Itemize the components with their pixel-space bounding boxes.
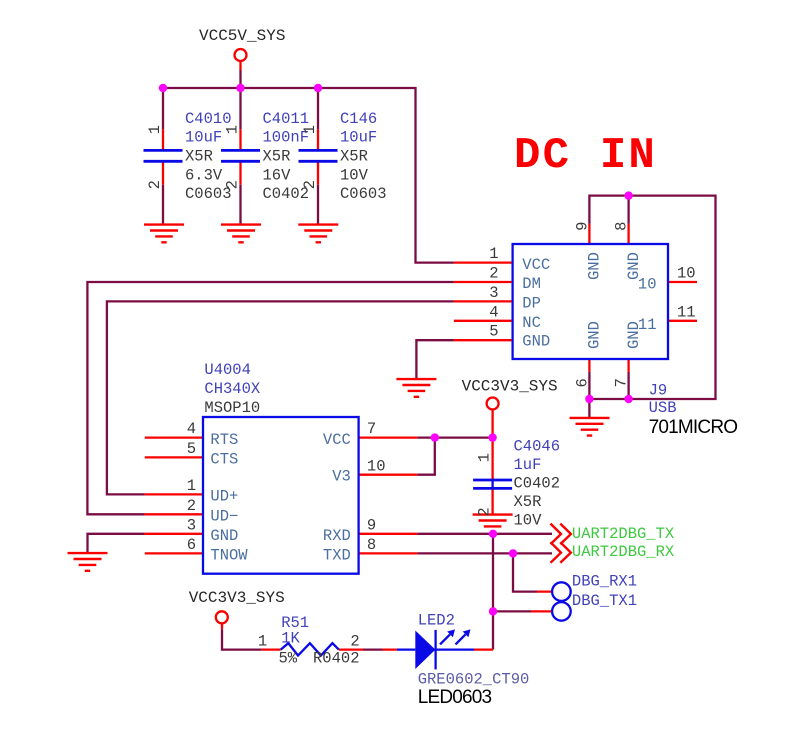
- svg-text:DP: DP: [522, 295, 541, 313]
- svg-text:6.3V: 6.3V: [185, 166, 223, 184]
- svg-text:R0402: R0402: [313, 650, 360, 668]
- svg-text:2: 2: [146, 180, 164, 189]
- svg-text:DC IN: DC IN: [514, 131, 657, 181]
- svg-text:GND: GND: [522, 332, 550, 350]
- svg-text:6: 6: [573, 378, 591, 387]
- svg-text:5: 5: [489, 323, 498, 341]
- svg-text:VCC3V3_SYS: VCC3V3_SYS: [462, 378, 558, 396]
- svg-text:GND: GND: [586, 321, 604, 349]
- svg-text:U4004: U4004: [204, 361, 251, 379]
- svg-text:UART2DBG_RX: UART2DBG_RX: [572, 543, 675, 561]
- svg-text:5: 5: [187, 440, 196, 458]
- svg-text:GND: GND: [586, 252, 604, 280]
- svg-text:DM: DM: [522, 275, 541, 293]
- svg-text:10uF: 10uF: [340, 129, 377, 147]
- svg-text:3: 3: [187, 516, 196, 534]
- svg-text:GND: GND: [210, 527, 238, 545]
- svg-text:2: 2: [301, 180, 319, 189]
- svg-text:2: 2: [476, 507, 494, 516]
- svg-text:1uF: 1uF: [514, 456, 542, 474]
- svg-text:2: 2: [489, 265, 498, 283]
- svg-text:TXD: TXD: [323, 547, 351, 565]
- svg-text:9: 9: [573, 222, 591, 231]
- svg-text:C4046: C4046: [514, 438, 561, 456]
- svg-text:VCC: VCC: [323, 431, 351, 449]
- svg-text:2: 2: [224, 180, 242, 189]
- svg-text:5%: 5%: [279, 650, 298, 668]
- svg-text:1: 1: [258, 632, 267, 650]
- svg-text:701MICRO: 701MICRO: [649, 417, 738, 438]
- svg-text:LED0603: LED0603: [418, 687, 492, 708]
- svg-text:DBG_RX1: DBG_RX1: [572, 573, 637, 591]
- svg-text:GND: GND: [625, 321, 643, 349]
- svg-text:1: 1: [301, 125, 319, 134]
- svg-text:V3: V3: [332, 468, 351, 486]
- svg-text:RTS: RTS: [210, 431, 238, 449]
- svg-text:11: 11: [677, 303, 696, 321]
- svg-text:C146: C146: [340, 110, 377, 128]
- svg-text:LED2: LED2: [418, 612, 455, 630]
- svg-text:9: 9: [367, 516, 376, 534]
- svg-text:10V: 10V: [514, 512, 543, 530]
- svg-text:2: 2: [187, 497, 196, 515]
- svg-text:2: 2: [350, 632, 359, 650]
- svg-text:X5R: X5R: [263, 148, 291, 166]
- svg-text:X5R: X5R: [185, 148, 213, 166]
- svg-text:1K: 1K: [281, 629, 300, 647]
- svg-text:X5R: X5R: [340, 148, 368, 166]
- svg-text:CTS: CTS: [210, 451, 238, 469]
- svg-text:UD+: UD+: [210, 488, 238, 506]
- svg-text:7: 7: [613, 378, 631, 387]
- svg-text:1: 1: [489, 245, 498, 263]
- svg-text:8: 8: [367, 536, 376, 554]
- svg-text:CH340X: CH340X: [204, 380, 261, 398]
- svg-text:7: 7: [367, 420, 376, 438]
- svg-text:6: 6: [187, 536, 196, 554]
- svg-text:UART2DBG_TX: UART2DBG_TX: [572, 525, 675, 543]
- svg-text:4: 4: [187, 420, 196, 438]
- svg-text:J9: J9: [649, 381, 668, 399]
- svg-text:USB: USB: [649, 399, 677, 417]
- svg-text:4: 4: [489, 303, 498, 321]
- svg-text:1: 1: [187, 477, 196, 495]
- svg-text:16V: 16V: [263, 166, 292, 184]
- svg-text:RXD: RXD: [323, 527, 351, 545]
- svg-text:1: 1: [476, 453, 494, 462]
- svg-text:VCC3V3_SYS: VCC3V3_SYS: [189, 589, 285, 607]
- svg-text:1: 1: [224, 125, 242, 134]
- svg-text:C0402: C0402: [514, 475, 561, 493]
- svg-text:VCC5V_SYS: VCC5V_SYS: [199, 27, 285, 45]
- svg-text:GND: GND: [625, 252, 643, 280]
- svg-text:10V: 10V: [340, 166, 369, 184]
- svg-text:GRE0602_CT90: GRE0602_CT90: [418, 670, 530, 688]
- svg-text:10uF: 10uF: [185, 129, 222, 147]
- svg-text:C0603: C0603: [340, 185, 387, 203]
- svg-text:VCC: VCC: [522, 256, 550, 274]
- svg-text:DBG_TX1: DBG_TX1: [572, 592, 637, 610]
- svg-text:10: 10: [677, 265, 696, 283]
- svg-text:UD−: UD−: [210, 508, 238, 526]
- svg-text:NC: NC: [522, 314, 541, 332]
- svg-text:TNOW: TNOW: [210, 547, 248, 565]
- svg-text:8: 8: [613, 222, 631, 231]
- svg-text:X5R: X5R: [514, 493, 542, 511]
- svg-text:3: 3: [489, 284, 498, 302]
- svg-text:10: 10: [367, 457, 386, 475]
- svg-text:MSOP10: MSOP10: [204, 399, 260, 417]
- svg-text:1: 1: [146, 125, 164, 134]
